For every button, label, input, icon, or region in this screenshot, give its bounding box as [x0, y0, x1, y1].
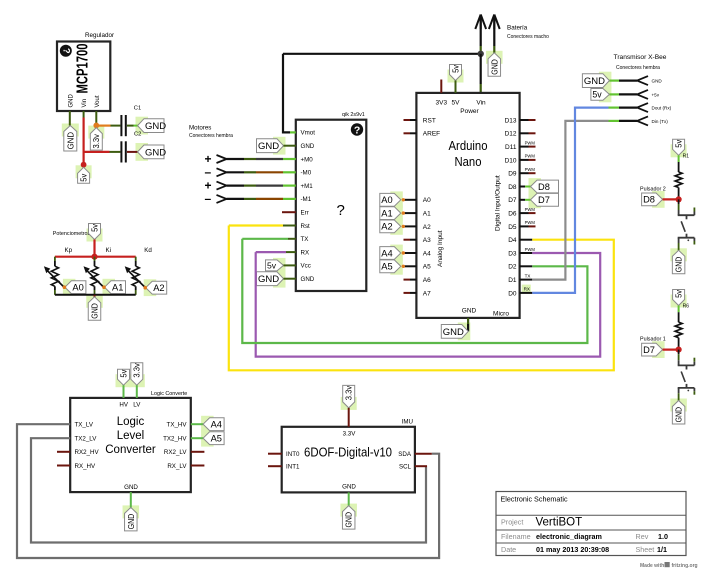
svg-text:SDA: SDA	[398, 451, 412, 458]
svg-text:GND: GND	[674, 407, 684, 423]
node pulsador 1 junction	[676, 347, 682, 353]
xbee female connector Dout (Rx)	[637, 103, 672, 112]
svg-text:Level: Level	[117, 430, 145, 442]
label Ki	[106, 247, 112, 254]
capacitor C1	[120, 115, 126, 136]
pin label A0 (arduino)	[423, 197, 431, 204]
svg-text:D4: D4	[508, 237, 517, 244]
pin label 3V3	[436, 100, 448, 107]
svg-text:D7: D7	[643, 345, 655, 355]
svg-text:Power: Power	[460, 108, 479, 115]
pin label RX2_LV (llc)	[164, 449, 187, 456]
capacitor C2	[120, 141, 126, 162]
svg-text:5V: 5V	[452, 100, 461, 107]
svg-text:Vin: Vin	[82, 99, 88, 108]
svg-text:GND: GND	[489, 59, 499, 75]
svg-text:?: ?	[337, 202, 345, 219]
wire A0 pin	[402, 198, 417, 201]
svg-text:PWM: PWM	[525, 140, 536, 145]
wire xbee +5v	[609, 93, 637, 95]
svg-text:TX_HV: TX_HV	[167, 422, 188, 429]
svg-text:GND: GND	[584, 76, 605, 87]
svg-text:GND: GND	[342, 484, 356, 491]
pin label AREF (arduino)	[423, 131, 440, 138]
label PWM (D6)	[525, 207, 536, 212]
label Potenciometros	[53, 231, 91, 237]
wire battery to Vmot	[283, 54, 296, 133]
svg-text:Rst: Rst	[301, 223, 311, 230]
svg-text:+5v: +5v	[652, 92, 660, 97]
wire 5v branch to C2	[84, 151, 121, 153]
wire pot bottom bus	[55, 294, 136, 296]
svg-text:GND: GND	[65, 132, 75, 150]
svg-text:Project: Project	[501, 518, 523, 527]
svg-text:Potenciometros: Potenciometros	[53, 231, 91, 237]
wire C1 to GND	[127, 125, 138, 127]
svg-text:Sheet: Sheet	[636, 545, 655, 554]
svg-text:A0: A0	[381, 195, 392, 205]
pin label D1 (arduino)	[508, 277, 517, 284]
svg-text:5v: 5v	[451, 65, 460, 73]
svg-text:D13: D13	[505, 117, 517, 124]
svg-text:6DOF-Digital-v10: 6DOF-Digital-v10	[304, 445, 392, 460]
svg-text:RX: RX	[301, 249, 310, 256]
wire 3V3 stub	[440, 80, 442, 93]
pin label SCL (imu)	[399, 464, 412, 471]
svg-text:A0: A0	[423, 197, 431, 204]
label TX (D1)	[525, 273, 531, 278]
svg-text:+M1: +M1	[301, 183, 314, 190]
wire INT1 stub	[268, 465, 282, 467]
svg-text:Vmot: Vmot	[301, 130, 316, 137]
wire imu GND pin	[348, 492, 350, 505]
wire RX2_HV stub	[57, 451, 70, 453]
wire INT0 stub	[268, 453, 282, 455]
wire D9 stub	[520, 172, 536, 174]
GND net label (xbee)	[582, 74, 609, 88]
label RX (D0)	[522, 285, 531, 292]
wire RX2_LV stub	[191, 451, 205, 453]
svg-text:A2: A2	[153, 283, 164, 293]
wire D6 stub	[520, 212, 536, 214]
svg-text:A1: A1	[381, 208, 392, 218]
pin label D0 (arduino)	[508, 290, 517, 297]
svg-text:GND: GND	[89, 303, 99, 319]
svg-text:RX_LV: RX_LV	[167, 463, 187, 470]
svg-text:D6: D6	[508, 211, 517, 218]
label Transmisor X-Bee	[614, 54, 667, 61]
pin label D12 (arduino)	[505, 131, 517, 138]
pushbutton pulsador 1	[678, 358, 695, 401]
svg-text:RX_HV: RX_HV	[75, 463, 97, 470]
svg-text:D3: D3	[508, 250, 517, 257]
wire D1 stub	[520, 279, 533, 281]
pin label A3 (arduino)	[423, 237, 431, 244]
wire grey TX2_LV-SCL	[31, 438, 426, 542]
wire A3 stub	[404, 239, 417, 241]
pin label D5 (arduino)	[508, 224, 517, 231]
pin label Err (driver)	[301, 210, 309, 217]
svg-text:Nano: Nano	[455, 155, 482, 169]
label Power	[460, 108, 479, 115]
label Pulsador 1	[640, 337, 666, 343]
3.3v net label (llc)	[131, 363, 143, 386]
svg-text:3.3v: 3.3v	[133, 363, 142, 378]
xbee female connector +5v	[637, 90, 660, 99]
label PWM (D10)	[525, 154, 536, 159]
svg-text:Kd: Kd	[144, 247, 152, 254]
wire D13 stub	[520, 119, 536, 121]
wire D12 stub	[520, 132, 536, 134]
svg-text:GND: GND	[126, 514, 136, 530]
svg-text:electronic_diagram: electronic_diagram	[536, 532, 602, 541]
resistor R6	[675, 322, 682, 338]
svg-text:D8: D8	[643, 195, 655, 205]
pin label +M0 (driver)	[301, 156, 314, 163]
svg-text:–: –	[205, 165, 212, 179]
pin label D11 (arduino)	[505, 144, 517, 151]
A1 net label (arduino)	[380, 207, 401, 220]
pin label TX (driver)	[301, 236, 309, 243]
label Logic Converte	[151, 391, 187, 397]
wire driver GND pin	[284, 145, 296, 147]
made with fritzing.org	[640, 562, 698, 569]
svg-text:Err: Err	[301, 210, 309, 217]
wire D11 stub	[520, 146, 536, 148]
label Analog Input	[437, 230, 444, 267]
svg-text:Vcc: Vcc	[301, 263, 311, 270]
motor connector pin 2 symbol	[205, 165, 227, 179]
wire D10 stub	[520, 159, 536, 161]
svg-text:D11: D11	[505, 144, 517, 151]
label Conectores hembra (motores)	[189, 133, 233, 139]
label qik 2s9v1	[342, 112, 365, 118]
wire D3 stub	[520, 252, 533, 254]
svg-text:Converter: Converter	[105, 444, 156, 456]
wire D0 stub	[520, 292, 533, 294]
svg-text:+: +	[205, 152, 212, 166]
wire node to switch	[678, 350, 680, 361]
svg-text:MCP1700: MCP1700	[75, 43, 92, 93]
label Digital Input/Output	[495, 175, 502, 231]
wire Vout to C1	[96, 124, 120, 126]
svg-text:Rev: Rev	[636, 532, 649, 541]
svg-text:D7: D7	[538, 195, 550, 205]
motor connector pin 3 symbol	[205, 178, 227, 192]
A5 net label (arduino)	[380, 260, 401, 273]
wire 5v to R1	[678, 155, 680, 172]
svg-text:A5: A5	[381, 262, 392, 272]
5v net label (pulsador 1)	[673, 290, 685, 306]
svg-text:PWM: PWM	[525, 167, 536, 172]
svg-text:AREF: AREF	[423, 131, 440, 138]
wire llc HV pin	[123, 385, 125, 398]
3.3v net label (imu)	[343, 385, 355, 408]
svg-text:HV: HV	[119, 402, 128, 409]
node Kp wiper	[63, 285, 67, 289]
pin label 5V	[452, 100, 461, 107]
wire xbee GND	[609, 79, 637, 81]
potentiometer Kd	[125, 257, 146, 295]
pin label RX2_HV (llc)	[75, 449, 100, 456]
pin label A1 (arduino)	[423, 211, 431, 218]
wire TX2_HV to A5	[191, 437, 203, 439]
wire Err stub	[282, 211, 296, 213]
svg-text:5v: 5v	[592, 90, 602, 100]
svg-text:GND: GND	[674, 257, 684, 273]
wire A6 stub	[404, 279, 417, 281]
wire 5V pin	[455, 81, 457, 93]
title Project row	[501, 517, 582, 529]
wire motor +M1	[227, 185, 296, 187]
xbee female connector Din (Tx)	[637, 116, 668, 125]
svg-text:1/1: 1/1	[657, 545, 667, 554]
svg-text:A5: A5	[423, 264, 431, 271]
wire MCP1700 GND pin	[69, 111, 71, 126]
5v net label (pulsador 2)	[673, 139, 685, 155]
svg-text:Motores: Motores	[189, 125, 211, 132]
svg-text:fritzing.org: fritzing.org	[672, 563, 698, 569]
arduino nano U2 body	[416, 93, 519, 318]
A0 net label	[65, 281, 86, 294]
GND net label (arduino)	[441, 325, 468, 339]
pin label D9 (arduino)	[508, 171, 517, 178]
pin label RST (arduino)	[423, 117, 436, 124]
svg-text:A1: A1	[112, 283, 123, 293]
potentiometer Kp	[44, 257, 65, 295]
svg-text:INT0: INT0	[286, 451, 300, 458]
wire RX_LV stub	[191, 465, 205, 467]
svg-text:A2: A2	[423, 224, 431, 231]
GND net label (C2)	[138, 145, 167, 159]
svg-text:Made with: Made with	[640, 563, 664, 569]
svg-text:RX: RX	[524, 287, 530, 292]
battery male connector pin 1	[475, 15, 486, 54]
svg-text:R1: R1	[683, 154, 690, 160]
pin label TX_HV (llc)	[167, 422, 188, 429]
svg-text:GND: GND	[124, 484, 138, 491]
net label connection glows	[62, 51, 687, 519]
D8 net label (pulsador 2)	[642, 193, 663, 206]
wire D8 pin	[520, 186, 531, 188]
label PWM (D11)	[525, 140, 536, 145]
pin label Vout (MCP1700)	[95, 95, 101, 107]
pin label D6 (arduino)	[508, 211, 517, 218]
svg-text:A5: A5	[211, 434, 222, 444]
svg-text:TX_LV: TX_LV	[75, 422, 94, 429]
wire grey TX_LV-SDA	[17, 424, 439, 558]
svg-text:TX2_HV: TX2_HV	[163, 436, 187, 443]
wire A5 pin	[402, 265, 417, 268]
label C2	[134, 132, 141, 138]
title Date row	[501, 545, 667, 554]
wire llc GND pin	[130, 492, 132, 507]
svg-text:1.0: 1.0	[658, 532, 668, 541]
pin label D10 (arduino)	[505, 157, 517, 164]
label Kd	[144, 247, 152, 254]
xbee female connector GND	[637, 76, 662, 85]
GND net label (regulator)	[64, 126, 77, 152]
wire grey D1-Din	[532, 121, 608, 280]
D7 net label (arduino)	[531, 193, 559, 206]
motor connector pin 1 symbol	[205, 152, 227, 166]
svg-text:–: –	[205, 192, 212, 206]
wire A7 stub	[404, 292, 417, 294]
svg-text:C1: C1	[134, 106, 141, 112]
wire arduino GND pin	[467, 318, 469, 332]
svg-text:A3: A3	[423, 237, 431, 244]
pin label A5 (arduino)	[423, 264, 431, 271]
wire 5v to pot bus	[93, 240, 95, 257]
pin label HV	[119, 402, 128, 409]
svg-text:Filename: Filename	[501, 532, 531, 541]
svg-text:PWM: PWM	[525, 154, 536, 159]
pin label GND (driver)	[301, 276, 315, 283]
svg-text:?: ?	[354, 124, 360, 136]
svg-text:Analog Input: Analog Input	[437, 230, 444, 267]
pin label TX2_LV (llc)	[75, 436, 98, 443]
node 5v junction	[81, 162, 87, 168]
svg-text:Kp: Kp	[65, 247, 73, 254]
wire blue D0-Dout	[532, 108, 608, 293]
svg-text:PWM: PWM	[525, 207, 536, 212]
label R6	[683, 304, 690, 310]
svg-text:VertiBOT: VertiBOT	[536, 517, 583, 529]
label Conectores macho	[507, 34, 549, 40]
wire RX_HV stub	[57, 465, 70, 467]
svg-text:5v: 5v	[90, 224, 99, 232]
wire A1 pin	[402, 211, 417, 214]
GND net label (imu)	[342, 506, 355, 529]
svg-text:D7: D7	[508, 197, 517, 204]
title Filename row	[501, 532, 668, 541]
node Kd wiper	[143, 286, 147, 290]
wire MCP1700 Vout pin	[95, 111, 97, 125]
wire R1 to node	[678, 188, 680, 200]
svg-text:SCL: SCL	[399, 464, 412, 471]
wire C2 to GND	[127, 151, 138, 153]
label PWM (D3)	[525, 247, 536, 252]
svg-text:Conectores macho: Conectores macho	[507, 34, 549, 40]
svg-text:Arduino: Arduino	[449, 139, 488, 153]
potentiometer Ki	[84, 257, 105, 295]
svg-text:Conectores hembra: Conectores hembra	[616, 65, 660, 71]
label PWM (D5)	[525, 220, 536, 225]
GND net label (battery)	[488, 53, 501, 77]
pin label Vcc (driver)	[301, 263, 311, 270]
wire junction to Vin	[480, 54, 482, 93]
motor driver U1 body	[296, 120, 367, 291]
svg-text:A7: A7	[423, 290, 431, 297]
svg-text:Regulador: Regulador	[85, 32, 114, 39]
logic level converter U4 body	[70, 398, 191, 492]
5v net label (llc)	[118, 369, 130, 385]
motor connector pin 4 symbol	[205, 192, 227, 206]
svg-text:RST: RST	[423, 117, 436, 124]
pushbutton pulsador 2	[678, 208, 695, 251]
label Micro	[493, 311, 509, 318]
pin label A7 (arduino)	[423, 290, 431, 297]
svg-text:RX2_LV: RX2_LV	[164, 449, 187, 456]
wire green D2-TX	[242, 239, 587, 343]
pin label Rst (driver)	[301, 223, 311, 230]
svg-text:Ki: Ki	[106, 247, 112, 254]
wire SCL stub	[415, 465, 427, 467]
svg-text:Micro: Micro	[493, 311, 509, 318]
svg-text:C2: C2	[134, 132, 141, 138]
wire driver Vcc pin	[284, 264, 296, 266]
wire D7 pin	[520, 199, 531, 201]
5v net label (driver Vcc)	[266, 260, 284, 271]
pin label D7 (arduino)	[508, 197, 517, 204]
svg-text:A6: A6	[423, 277, 431, 284]
label Bateria	[507, 25, 528, 32]
wire TX from green	[242, 238, 295, 240]
svg-text:PWM: PWM	[525, 247, 536, 252]
wire D5 stub	[520, 225, 536, 227]
node battery junction	[478, 51, 484, 57]
label C1	[134, 106, 141, 112]
wire A2 pin	[402, 225, 417, 228]
svg-text:D8: D8	[538, 182, 550, 192]
wire motor -M0	[227, 171, 296, 173]
D8 net label (arduino)	[531, 180, 559, 193]
pin label Vmot (driver)	[301, 130, 316, 137]
resistor R1	[675, 172, 682, 188]
svg-text:5v: 5v	[674, 140, 683, 148]
svg-text:INT1: INT1	[286, 464, 300, 471]
wire TX_HV to A4	[191, 423, 203, 425]
regulator U3 MCP1700 body	[57, 42, 110, 112]
svg-text:5v: 5v	[267, 260, 277, 270]
svg-text:GND: GND	[462, 308, 477, 315]
svg-text:LV: LV	[133, 402, 141, 409]
pin label Vin	[476, 100, 486, 107]
svg-text:D2: D2	[508, 264, 517, 271]
pin label INT1 (imu)	[286, 464, 300, 471]
svg-text:GND: GND	[443, 327, 464, 338]
wire Rst from yellow	[229, 224, 296, 226]
svg-text:-M0: -M0	[301, 170, 312, 177]
pin label TX2_HV (llc)	[163, 436, 187, 443]
wire A4 pin	[402, 251, 417, 254]
wire node to switch	[678, 199, 680, 210]
GND net label (C1)	[138, 119, 167, 133]
A2 net label	[146, 281, 167, 294]
label Conectores hembra (xbee)	[616, 65, 660, 71]
label IMU	[402, 419, 413, 426]
wire purple D3-RX	[256, 252, 601, 357]
svg-text:TX2_LV: TX2_LV	[75, 436, 98, 443]
svg-text:qik 2s9v1: qik 2s9v1	[342, 112, 365, 118]
svg-text:3.3v: 3.3v	[92, 134, 101, 149]
wire driver GND2 pin	[284, 278, 296, 280]
A5 net label (llc)	[203, 432, 224, 445]
wire D4 stub	[520, 239, 533, 241]
label R1	[683, 154, 690, 160]
battery male connector pin 2 (GND)	[489, 15, 500, 53]
node pot bus junction	[91, 254, 97, 260]
label PWM (D9)	[525, 167, 536, 172]
pin label GND (driver)	[301, 143, 315, 150]
wire MCP1700 Vin pin	[83, 111, 85, 165]
svg-text:Digital Input/Output: Digital Input/Output	[495, 175, 502, 231]
svg-text:3V3: 3V3	[436, 100, 448, 107]
svg-text:Logic Converte: Logic Converte	[151, 391, 187, 397]
wire motor +M0	[227, 158, 296, 160]
svg-text:GND: GND	[145, 147, 166, 158]
svg-text:Dout (Rx): Dout (Rx)	[652, 106, 672, 111]
